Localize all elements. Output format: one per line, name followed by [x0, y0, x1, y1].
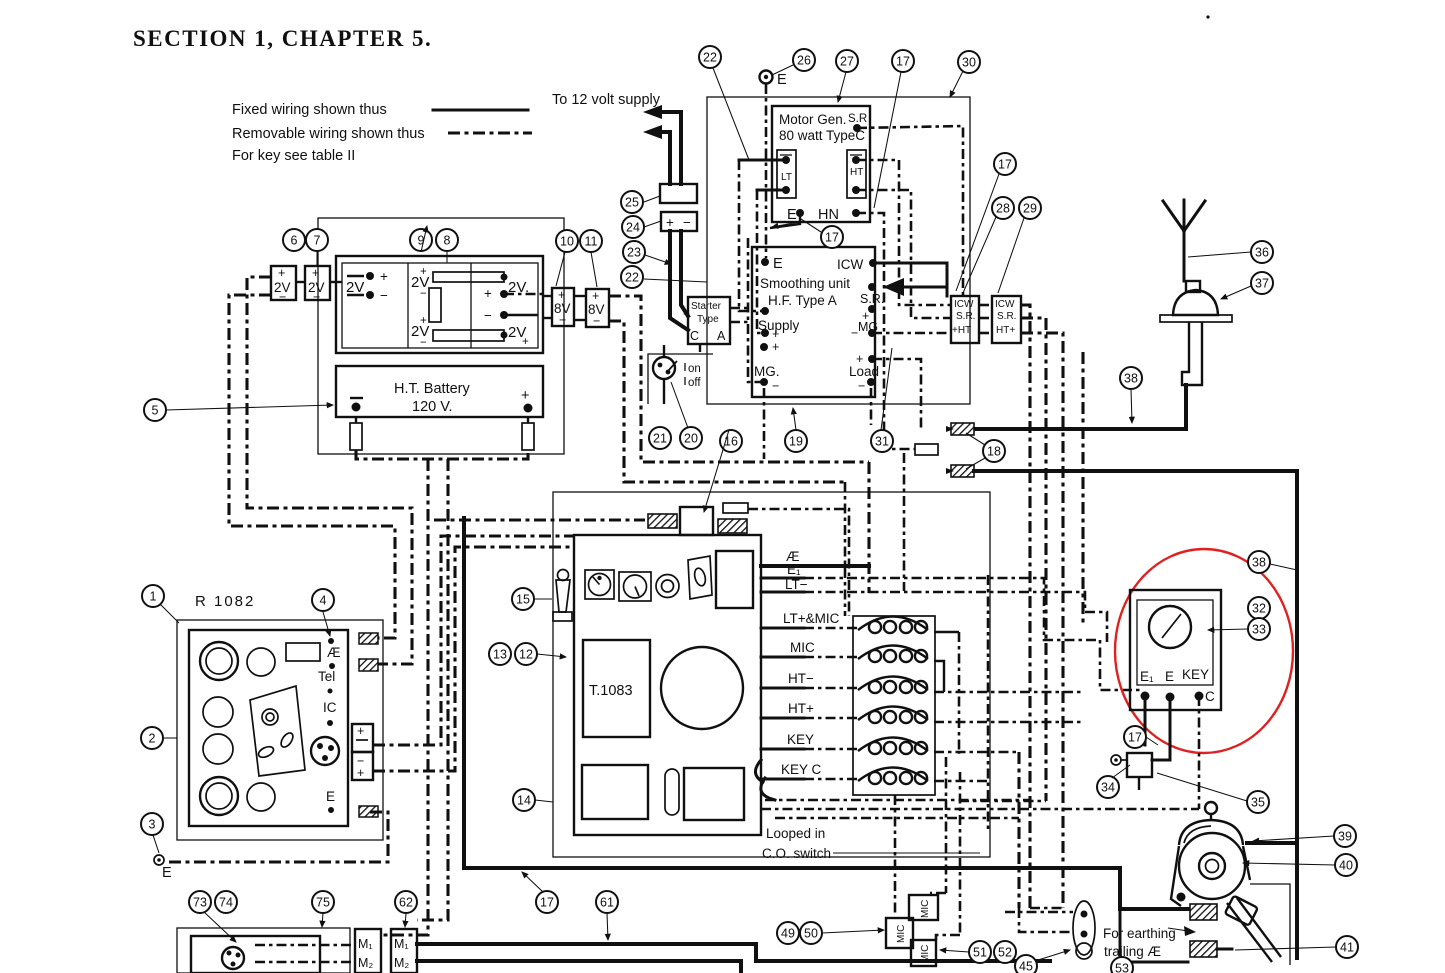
key item circle 26 [793, 49, 815, 71]
svg-text:+: + [522, 336, 529, 348]
leader 4950 [822, 930, 884, 933]
wire coil out LT+MIC [934, 631, 959, 633]
wire riser 869 drop [867, 462, 870, 593]
wire MG bottom drop [763, 388, 766, 459]
wire coil out MIC [934, 661, 944, 692]
stray ink dot top right [1206, 15, 1209, 18]
HT fuse right [522, 423, 534, 450]
key item circle 37 [1251, 272, 1273, 294]
svg-text:Type: Type [697, 314, 719, 325]
leader 24 [644, 221, 661, 227]
earth terminal top [760, 71, 773, 84]
leader 15 [534, 598, 552, 600]
svg-text:39: 39 [1338, 829, 1352, 843]
svg-text:+: + [772, 327, 779, 341]
key item circle 51 [969, 941, 991, 963]
leader 20 [671, 382, 688, 428]
key item circle 30 [958, 51, 980, 73]
svg-text:T.1083: T.1083 [589, 683, 633, 699]
svg-text:61: 61 [600, 895, 614, 909]
key item circle 9 [410, 229, 432, 251]
leader 73 [204, 912, 236, 942]
HT battery box [336, 366, 543, 417]
leader 25 [644, 196, 660, 202]
wire SR out [853, 124, 861, 132]
key item circle 36 [1251, 241, 1273, 263]
svg-text:17: 17 [540, 895, 554, 909]
svg-text:on: on [688, 363, 701, 375]
leader 17e [1146, 737, 1158, 745]
choke coil HT+ [858, 707, 928, 721]
HT fuse left [350, 423, 362, 450]
svg-text:37: 37 [1255, 276, 1269, 290]
leader 51 [940, 950, 969, 952]
on-off switch [653, 357, 675, 379]
morse key terminal dot [1177, 893, 1186, 902]
key item circle 38 [1120, 367, 1142, 389]
8V tapping box A [552, 288, 574, 326]
svg-text:+: + [683, 309, 690, 321]
svg-text:+: + [278, 266, 285, 280]
svg-text:4: 4 [320, 593, 327, 607]
leader 4 [323, 612, 330, 636]
svg-text:A: A [717, 329, 726, 343]
leader 61 [607, 913, 608, 940]
wire MIC riser B [959, 772, 962, 935]
wire keying bus vertical left [462, 518, 466, 868]
leader 28 [963, 217, 996, 293]
leader 1 [160, 604, 179, 623]
leader 8 [446, 252, 448, 263]
leader 17b [801, 219, 821, 232]
bottom module B [684, 768, 744, 820]
smoothing MG left terminals [760, 343, 768, 351]
wire socket lead [748, 509, 849, 616]
svg-text:23: 23 [627, 245, 641, 259]
svg-text:ICW: ICW [954, 299, 974, 310]
cell bar bottom [433, 330, 504, 341]
svg-text:MIC: MIC [920, 900, 931, 918]
M terminal box A [355, 929, 381, 973]
key item circle 40 [1335, 854, 1357, 876]
svg-text:21: 21 [653, 431, 667, 445]
svg-text:2: 2 [149, 731, 156, 745]
jack connector circle [311, 737, 339, 765]
svg-text:M₂: M₂ [394, 956, 409, 970]
transmitter thin enclosure [553, 492, 990, 857]
svg-text:−: − [484, 308, 492, 323]
leader 9 [421, 226, 427, 252]
svg-text:HT+: HT+ [788, 701, 814, 716]
morse key lever [1227, 898, 1281, 962]
relay box item34 [1127, 753, 1152, 777]
wire M2 dash link [255, 961, 355, 964]
leader 23 [645, 255, 671, 264]
wire E plug run [168, 812, 388, 862]
svg-text:38: 38 [1252, 555, 1266, 569]
svg-text:+: + [558, 288, 565, 302]
key item circle 33 [1248, 618, 1270, 640]
svg-text:S.R: S.R [848, 113, 867, 125]
svg-text:15: 15 [516, 592, 530, 606]
antenna insulator block [1186, 281, 1200, 292]
wire KEY C lead [761, 778, 804, 781]
wire supply vertical B [757, 190, 765, 333]
leader 1213 [537, 654, 566, 657]
MIC box lower [911, 940, 936, 966]
svg-text:IC: IC [323, 700, 337, 715]
svg-text:2V: 2V [346, 279, 364, 296]
key item circle 17 [994, 153, 1016, 175]
svg-text:S.R.: S.R. [860, 292, 884, 306]
leader 17c [956, 174, 999, 291]
antenna [1163, 200, 1205, 281]
wire on-off drop [663, 380, 665, 404]
leader 38b [1270, 564, 1297, 570]
leader 35 [1157, 773, 1247, 801]
motor generator box [772, 106, 870, 222]
svg-text:6: 6 [291, 233, 298, 247]
key item circle 22 [699, 46, 721, 68]
wire bottom bus C [775, 817, 1019, 820]
svg-text:E: E [787, 207, 797, 223]
knob mid B [203, 734, 233, 764]
leader 37 [1221, 286, 1251, 299]
wire HN out to sleeve [856, 213, 915, 449]
key item circle 17 [821, 226, 843, 248]
svg-text:8: 8 [444, 233, 451, 247]
choke coil box [853, 616, 935, 795]
svg-text:trailing Æ: trailing Æ [1104, 944, 1161, 959]
smoothing unit box [752, 247, 875, 397]
smoothing SR terminal [868, 283, 876, 291]
wire E1 out [761, 577, 804, 580]
leader 14 [535, 800, 553, 802]
key item circle 8 [436, 229, 458, 251]
key item circle 7 [306, 229, 328, 251]
leader 29 [998, 218, 1024, 293]
wire 8V A to 8V B [574, 295, 586, 297]
wire vertical run 1083 [1081, 352, 1084, 624]
morse key lever knob [1225, 896, 1258, 926]
svg-text:E₁: E₁ [1140, 669, 1154, 684]
looped hook [755, 760, 763, 782]
key item circle 20 [680, 427, 702, 449]
svg-text:+: + [357, 724, 364, 738]
wire AE out [761, 564, 869, 568]
battery bank outer thin enclosure [318, 218, 564, 454]
choke coil KEY [858, 738, 928, 752]
svg-text:E: E [773, 256, 783, 272]
wire M2 main run [417, 961, 741, 973]
wire oval feeds [1005, 911, 1073, 914]
wire Load bottom drop [870, 388, 873, 425]
panel terminal AE [328, 638, 334, 644]
svg-text:+: + [420, 266, 427, 278]
svg-text:S.R.: S.R. [956, 311, 975, 322]
svg-text:51: 51 [973, 945, 987, 959]
insulator dome [1173, 290, 1218, 315]
AE lead-in plug lower [951, 465, 974, 477]
wire meter E lead [1152, 697, 1170, 760]
wire antenna down lead [974, 385, 1186, 429]
svg-text:MG.: MG. [754, 364, 780, 379]
svg-text:LT: LT [781, 172, 792, 183]
morse key funnel item15 [558, 570, 569, 581]
svg-text:HT: HT [850, 167, 863, 178]
junction box ICW-SR-HT A [951, 296, 979, 343]
knob square A [585, 570, 614, 599]
wire aerial feed bus to connector [434, 518, 645, 521]
svg-text:R 1082: R 1082 [195, 593, 255, 610]
svg-text:−: − [279, 290, 286, 304]
connector plug hatched right [718, 519, 747, 533]
knob circle C [656, 575, 679, 598]
svg-text:30: 30 [962, 55, 976, 69]
svg-text:35: 35 [1251, 795, 1265, 809]
choke coil MIC [858, 646, 928, 660]
svg-text:+: + [772, 340, 779, 354]
cell partition 1 [407, 263, 409, 348]
svg-text:73: 73 [193, 895, 207, 909]
key item circle 24 [622, 216, 644, 238]
leader 22b [644, 279, 707, 282]
wire coil out HT- [934, 691, 1083, 694]
svg-text:62: 62 [399, 895, 413, 909]
wire sleeve drop [903, 453, 906, 591]
leader 19 [793, 408, 796, 430]
svg-text:52: 52 [998, 945, 1012, 959]
svg-text:C.O. switch: C.O. switch [762, 846, 831, 861]
cell top-row junction dots [501, 274, 508, 281]
legend solid line sample [433, 109, 528, 112]
svg-text:−: − [313, 290, 320, 304]
svg-text:+: + [666, 215, 674, 230]
wire starter down to onoff [699, 344, 701, 352]
wire removable LT negative run [229, 295, 395, 638]
key item circle 35 [1247, 791, 1269, 813]
leader 2 [163, 737, 177, 739]
tilted window D [688, 556, 712, 599]
key item circle 21 [649, 427, 671, 449]
key item circle 3 [141, 813, 163, 835]
key item circle 50 [800, 922, 822, 944]
M terminal box B [391, 929, 417, 973]
choke coil LT+&MIC [858, 617, 928, 631]
svg-text:KEY: KEY [1182, 667, 1209, 682]
key item circle 62 [395, 891, 417, 913]
wire keying main bus [464, 868, 1188, 909]
svg-text:−: − [858, 379, 865, 393]
key item circle 34 [1097, 776, 1119, 798]
svg-text:+: + [592, 289, 599, 303]
wire plug lower stub [1217, 948, 1232, 951]
cell left terminal - [366, 291, 374, 299]
wire LT feeds left [739, 159, 786, 162]
MIC box upper [909, 895, 938, 920]
svg-text:17: 17 [896, 54, 910, 68]
svg-text:Smoothing unit: Smoothing unit [760, 276, 850, 291]
svg-text:24: 24 [626, 220, 640, 234]
knob square B [619, 572, 651, 601]
knob top-left big [200, 642, 238, 680]
transmitter top connector [680, 507, 713, 535]
bottom slot oval [665, 769, 679, 815]
small socket rect [723, 503, 748, 513]
wire coil out HT+ [934, 721, 1083, 724]
key item circle 16 [720, 430, 742, 452]
key item circle 38 [1248, 551, 1270, 573]
key item circle 23 [623, 241, 645, 263]
leader 27 [838, 72, 846, 102]
key item circle 14 [513, 789, 535, 811]
svg-text:33: 33 [1252, 622, 1266, 636]
svg-text:MIC: MIC [896, 925, 907, 943]
svg-text:14: 14 [517, 793, 531, 807]
wire 8V B plus riser [609, 296, 869, 462]
meter dial [1149, 606, 1191, 648]
motor gen LT terminal box [777, 150, 796, 198]
key item circle 25 [621, 191, 643, 213]
knob top second [247, 648, 275, 676]
insulator base plate [1160, 315, 1232, 322]
wire coil out KEY [934, 751, 1019, 754]
svg-text:11: 11 [585, 234, 598, 248]
svg-text:Tel: Tel [318, 669, 335, 684]
wire HT top out [856, 160, 951, 305]
knob mid A [203, 697, 233, 727]
svg-text:41: 41 [1340, 940, 1354, 954]
wire: 12V supply arrow lower [656, 132, 670, 184]
svg-text:Looped in: Looped in [766, 826, 825, 841]
key item circle 10 [556, 230, 578, 252]
svg-text:S.R.: S.R. [997, 311, 1016, 322]
svg-text:36: 36 [1255, 245, 1269, 259]
fuse box item24 [661, 212, 697, 231]
connector plug hatched left [648, 514, 677, 528]
wire MG+ out right [872, 332, 951, 335]
leader 5 [166, 405, 333, 410]
key item circle 32 [1248, 597, 1270, 619]
svg-text:−: − [772, 379, 779, 393]
svg-text:7: 7 [314, 233, 321, 247]
smoothing E terminal [761, 258, 769, 266]
svg-text:19: 19 [789, 434, 803, 448]
insulator stem tube [1182, 322, 1202, 385]
plug key upper hatched [1190, 904, 1217, 920]
leader 38a [1131, 389, 1132, 423]
svg-text:+: + [420, 315, 427, 327]
svg-text:49: 49 [781, 926, 795, 940]
key item circle 18 [983, 440, 1005, 462]
key item circle 61 [596, 891, 618, 913]
leader 45 [1035, 950, 1070, 961]
svg-text:LT−: LT− [785, 577, 808, 592]
svg-text:−: − [559, 313, 566, 327]
svg-text:HT+: HT+ [996, 325, 1015, 336]
wire starter to smoothing stubs [730, 307, 752, 310]
svg-text:off: off [688, 377, 701, 389]
svg-text:26: 26 [797, 53, 811, 67]
legend dash-dot line sample [448, 131, 532, 134]
leader 31 [881, 348, 892, 430]
morse key knob [1205, 802, 1217, 814]
leader 34 [1112, 765, 1130, 778]
plug E hatched [359, 806, 378, 817]
svg-text:−: − [593, 314, 600, 328]
8V tapping box B [586, 289, 609, 327]
leader 41 [1235, 947, 1336, 950]
leader 75 [322, 913, 323, 927]
smoothing supply terminals [761, 307, 769, 315]
T1083 main box [574, 535, 761, 835]
cell partition 2 [470, 263, 472, 348]
svg-text:27: 27 [840, 54, 854, 68]
plug AE hatched [359, 633, 378, 644]
leader 39 [1253, 836, 1334, 841]
svg-text:−: − [420, 337, 427, 349]
svg-text:ICW: ICW [837, 257, 864, 272]
svg-text:12: 12 [519, 647, 533, 661]
key item circle 6 [283, 229, 305, 251]
meter terminals [1141, 692, 1150, 701]
leader 36 [1188, 252, 1251, 257]
wire junction outputs to vertical runs [1021, 305, 1030, 908]
svg-text:HT−: HT− [788, 671, 814, 686]
svg-text:Motor Gen.: Motor Gen. [779, 112, 847, 127]
key item circle 17 [1124, 726, 1146, 748]
wire MIC riser stubs [930, 892, 946, 895]
wire HT bottom out [856, 190, 951, 318]
key item circle 4 [312, 589, 334, 611]
svg-text:H.T. Battery: H.T. Battery [394, 381, 470, 397]
svg-text:For key see table II: For key see table II [232, 148, 355, 164]
svg-text:17: 17 [1128, 730, 1142, 744]
svg-text:22: 22 [703, 50, 717, 64]
MIC box mid [886, 918, 913, 948]
plug key lower hatched [1190, 941, 1217, 957]
svg-text:13: 13 [493, 647, 507, 661]
wire MIC riser A [945, 757, 948, 893]
svg-text:3: 3 [149, 817, 156, 831]
svg-text:SECTION 1, CHAPTER 5.: SECTION 1, CHAPTER 5. [133, 26, 432, 51]
wire KEYC hook [761, 778, 775, 800]
wire LT block row2 [373, 547, 574, 771]
wire HT plus drop [417, 459, 448, 920]
bottom junction inner box [191, 936, 320, 973]
key item circle 27 [836, 50, 858, 72]
leader 18a [966, 433, 985, 445]
svg-text:38: 38 [1124, 371, 1138, 385]
wire: 12V supply arrow upper [656, 112, 681, 184]
window rect [286, 643, 320, 661]
wire lower stub bus [1030, 907, 1063, 910]
svg-text:120 V.: 120 V. [412, 399, 453, 415]
wire E kink to earth lead [770, 216, 800, 228]
leader 30 [950, 71, 963, 97]
svg-text:−: − [683, 215, 691, 230]
wire cell right links [504, 293, 543, 296]
thin frame right [1250, 884, 1290, 965]
leader 3 [153, 835, 159, 853]
2V spare box A [271, 266, 296, 300]
key item circle 75 [312, 891, 334, 913]
svg-text:H.F. Type A: H.F. Type A [768, 293, 837, 308]
oval connector item45 [1073, 901, 1095, 955]
tuning dial circle [661, 647, 743, 729]
svg-text:E: E [777, 72, 787, 88]
wire removable LT positive run [247, 277, 412, 664]
